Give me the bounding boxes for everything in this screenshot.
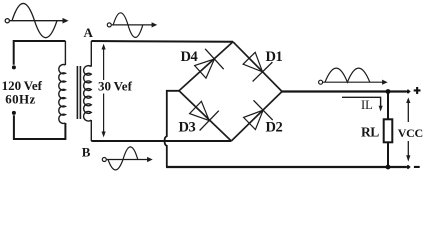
svg-text:D3: D3 (179, 120, 196, 136)
svg-text:60Hz: 60Hz (5, 92, 35, 107)
bridge arm wire T-R (233, 42, 282, 92)
wire primary loop bottom (14, 115, 66, 139)
junction dot bottom (386, 165, 391, 170)
svg-text:IL: IL (361, 98, 373, 112)
output waveform symbol (full-wave rectified) (319, 68, 388, 85)
wire output branch to resistor (387, 92, 389, 168)
svg-text:D4: D4 (181, 49, 198, 65)
bridge arm wire Bot-R (231, 92, 282, 142)
VCC voltage arrow up (406, 97, 410, 122)
top output rail wire (282, 90, 406, 92)
junction dot top (386, 89, 391, 94)
svg-text:D1: D1 (266, 49, 283, 65)
IL current arrow (342, 97, 383, 111)
bottom rail wire (166, 166, 406, 168)
resistor RL (384, 119, 393, 142)
bridge arm wire L-Bot (179, 91, 231, 141)
wire left vertex to bottom rail with crossover hop (165, 91, 179, 167)
waveform symbol at node B (102, 147, 152, 170)
AC source waveform symbol (primary input sine) (5, 3, 68, 37)
transformer primary winding (59, 41, 66, 123)
diode D4 (195, 49, 224, 78)
waveform symbol at node A (107, 13, 157, 38)
bridge arm wire L-T (179, 42, 233, 91)
svg-text:D2: D2 (266, 120, 283, 136)
30Vef measurement arrow (102, 44, 106, 138)
transformer secondary winding (84, 41, 92, 141)
svg-text:RL: RL (361, 124, 379, 139)
transformer core (77, 66, 80, 119)
VCC voltage arrow down (406, 141, 410, 162)
svg-text:VCC: VCC (398, 126, 423, 140)
diode D1 (243, 52, 272, 81)
AC source terminal dot top (12, 65, 16, 69)
svg-text:120 Vef: 120 Vef (2, 78, 43, 93)
AC source terminal dot bottom (12, 111, 16, 115)
plus terminal (405, 87, 420, 94)
svg-text:A: A (84, 25, 94, 40)
wire primary loop top (14, 41, 66, 65)
diode D2 (244, 100, 273, 129)
wire B (secondary bottom to bridge bottom vertex) (91, 140, 231, 142)
svg-text:B: B (82, 144, 91, 159)
diode D3 (190, 101, 219, 130)
minus terminal (405, 165, 419, 170)
wire A (secondary top to bridge top vertex) (91, 40, 233, 43)
svg-text:30 Vef: 30 Vef (98, 79, 133, 94)
